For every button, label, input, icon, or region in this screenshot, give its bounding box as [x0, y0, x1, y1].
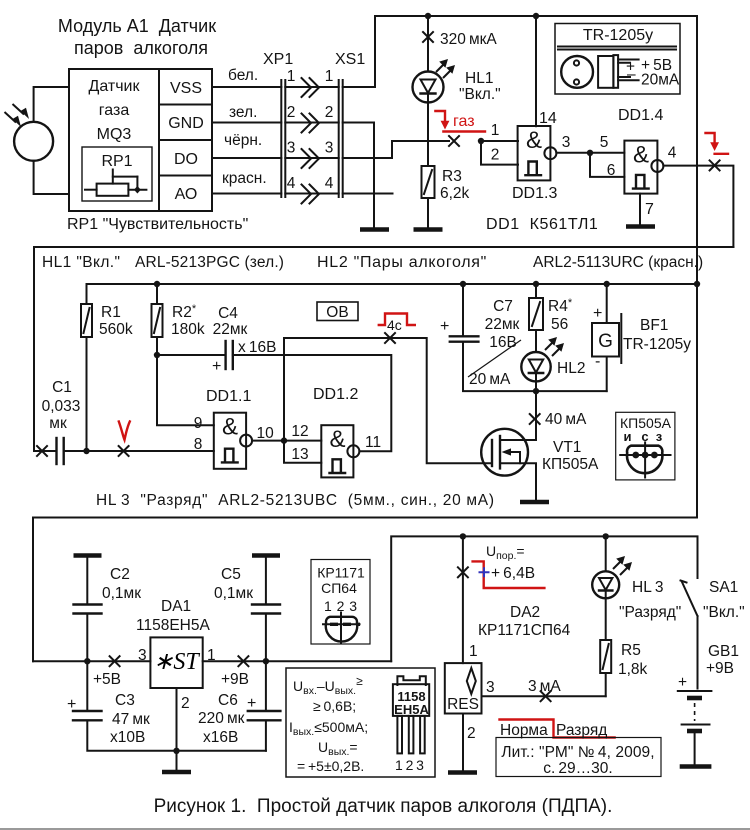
svg-text:DA1: DA1 [161, 598, 191, 615]
wire DA2 pin3 [482, 695, 606, 697]
svg-text:180k: 180k [171, 321, 205, 338]
svg-text:HL 3 "Разряд" ARL2-5213UBC: HL 3 "Разряд" ARL2-5213UBC (5мм., син., … [96, 492, 495, 509]
sounder BF1 [606, 284, 608, 323]
svg-text:∗ST: ∗ST [153, 649, 200, 675]
svg-text:40 мА: 40 мА [545, 411, 587, 428]
connector XP1 double bar [280, 80, 282, 197]
resistor R4 [535, 284, 537, 298]
svg-text:ЕН5А: ЕН5А [394, 702, 429, 717]
node DA2 pin1 rail junction [460, 533, 466, 539]
current marker gamma [119, 446, 129, 456]
LED HL3 [605, 536, 607, 571]
current marker +9V [238, 656, 248, 666]
svg-text:+: + [593, 305, 602, 322]
svg-text:R5: R5 [621, 642, 641, 659]
pin3 chevrons [302, 149, 320, 168]
node C2/C3 junction [84, 658, 90, 664]
node one-shot output junction [281, 437, 287, 443]
gate DD1.1 [214, 413, 246, 469]
capacitor C4 [157, 354, 225, 356]
svg-text:"Разряд": "Разряд" [619, 604, 681, 621]
current marker Upor [458, 567, 468, 577]
svg-text:газ: газ [453, 113, 475, 130]
svg-text:С2: С2 [110, 566, 130, 583]
svg-text:20 мА: 20 мА [469, 371, 511, 388]
bottom grey edge line [0, 828, 750, 830]
wire R5 to pin3 [605, 673, 607, 696]
svg-text:мк: мк [49, 415, 67, 432]
module A1 box [69, 69, 212, 211]
red threshold step [473, 561, 545, 588]
svg-text:HL1: HL1 [465, 70, 493, 87]
svg-text:220 мк: 220 мк [198, 710, 245, 727]
svg-text:и: и [624, 429, 632, 444]
svg-text:ОВ: ОВ [326, 304, 348, 321]
svg-text:Рисунок 1. Простой датчик пар: Рисунок 1. Простой датчик паров алкоголя… [154, 796, 613, 817]
gate DD1.4 [624, 141, 657, 194]
svg-text:х 16В: х 16В [238, 339, 276, 356]
current marker +5V [110, 656, 120, 666]
svg-text:3: 3 [486, 679, 495, 696]
svg-text:+: + [440, 318, 449, 335]
svg-text:R3: R3 [442, 168, 462, 185]
svg-text:х10В: х10В [110, 729, 145, 746]
svg-text:DD1 К561ТЛ1: DD1 К561ТЛ1 [486, 216, 598, 233]
svg-text:10: 10 [257, 425, 275, 442]
wire DA2 pin2 ground [462, 714, 464, 771]
svg-text:КР1171: КР1171 [317, 565, 365, 581]
pin 7 ground [639, 194, 641, 225]
svg-text:HL 3: HL 3 [632, 579, 664, 596]
svg-text:-: - [595, 353, 600, 370]
current marker pin4 [710, 160, 720, 170]
wire DD1.4 output pin4 [663, 166, 733, 247]
svg-text:2: 2 [325, 104, 334, 121]
svg-text:320 мкА: 320 мкА [440, 31, 497, 48]
svg-text:+5В: +5В [93, 671, 121, 688]
info box TR-1205y [555, 24, 680, 95]
svg-text:6,2k: 6,2k [440, 185, 470, 202]
svg-text:56: 56 [551, 316, 568, 333]
info box DA1 formulas + package [286, 668, 435, 777]
svg-text:0,1мк: 0,1мк [214, 585, 253, 602]
wire C1 input [34, 450, 56, 452]
current marker 320uA [423, 32, 433, 42]
wire DD1.4 output loop (top edge + left edge of middle section) [34, 247, 733, 451]
transistor VT1 KP505A [535, 391, 537, 440]
info box literature [496, 738, 661, 777]
node C7 top [460, 281, 466, 287]
capacitor C2 ground [74, 553, 102, 558]
svg-text:&: & [526, 127, 542, 154]
svg-text:TR-1205у: TR-1205у [583, 27, 653, 44]
svg-text:3: 3 [562, 134, 571, 151]
svg-text:1: 1 [325, 68, 334, 85]
svg-text:7: 7 [645, 201, 654, 218]
svg-text:бел.: бел. [228, 67, 258, 84]
connector XS1 double bar [338, 80, 340, 197]
pin2 chevrons [302, 114, 320, 133]
svg-text:С6: С6 [218, 692, 238, 709]
svg-text:1: 1 [207, 647, 216, 664]
svg-text:VSS: VSS [170, 80, 202, 97]
SECTION-MIDDLE [33, 16, 733, 661]
svg-text:+: + [67, 696, 76, 713]
svg-text:С1: С1 [52, 379, 72, 396]
node R1 bottom junction [83, 448, 89, 454]
svg-text:красн.: красн. [222, 170, 267, 187]
wire VSS (pin1) [212, 16, 697, 87]
pin1 chevrons [302, 78, 320, 97]
svg-text:1: 1 [469, 643, 478, 660]
svg-text:9: 9 [194, 415, 203, 432]
info box KR1171 SP64 pinout [311, 560, 370, 645]
svg-text:Лит.: "РМ" № 4, 2009,: Лит.: "РМ" № 4, 2009, [501, 744, 654, 761]
HL1 wire down through DO crossing to R3 [427, 103, 429, 167]
resistor R1 [86, 284, 88, 304]
red step-down symbol at pin4 [706, 133, 715, 144]
svg-text:газа: газа [99, 102, 130, 119]
wire C4 right to DD1.2 output loop [233, 355, 391, 451]
red gamma spike symbol [119, 422, 130, 440]
svg-text:MQ3: MQ3 [97, 126, 132, 143]
svg-text:4: 4 [668, 145, 677, 162]
wire pin5 [590, 152, 624, 154]
svg-text:2: 2 [467, 725, 476, 742]
svg-text:RES: RES [447, 696, 479, 713]
node +5V top rail dot at pin14 [533, 13, 539, 19]
capacitor C2 [86, 558, 88, 604]
package 1158EH5A drawing [397, 676, 425, 685]
svg-text:1: 1 [491, 122, 500, 139]
svg-text:+ 6,4В: + 6,4В [491, 565, 535, 582]
svg-text:VT1: VT1 [553, 439, 581, 456]
wire pin6 [590, 153, 624, 177]
resistor R5 [605, 598, 607, 640]
node C5/C6 junction [263, 658, 269, 664]
+9V rail from battery [391, 536, 697, 661]
svg-text:"Вкл.": "Вкл." [703, 604, 745, 621]
node +5V top rail dot at HL1 [425, 13, 431, 19]
svg-text:G: G [598, 331, 613, 352]
svg-text:&: & [222, 414, 238, 441]
svg-text:Модуль А1 Датчик: Модуль А1 Датчик [58, 16, 216, 36]
R3 ground [427, 198, 429, 228]
red 4s pulse symbol [379, 314, 415, 326]
svg-text:3: 3 [287, 140, 296, 157]
resistor R2 [156, 284, 158, 304]
current marker 40mA [530, 414, 540, 424]
switch SA1 [681, 581, 687, 583]
wire DD1.1 out to DD1.2 in [252, 440, 321, 442]
svg-text:6: 6 [607, 162, 616, 179]
svg-text:С3: С3 [115, 692, 135, 709]
gas sensor inlet circle [14, 122, 53, 161]
node R2 bottom junction [154, 352, 160, 358]
HL1 emission arrows [436, 63, 452, 78]
battery ground [680, 764, 712, 769]
svg-text:22мк: 22мк [213, 321, 248, 338]
wire DO (pin3) [212, 141, 449, 158]
svg-text:КП505А: КП505А [542, 456, 599, 473]
red norma/razryad step [500, 720, 615, 738]
wire 4s output up and over [284, 338, 491, 463]
svg-text:4: 4 [287, 175, 296, 192]
wire DA1 pin1 (+9V in) [203, 660, 392, 662]
wire GND (pin2) [212, 123, 374, 229]
svg-text:GND: GND [168, 115, 204, 132]
svg-text:+: + [247, 695, 256, 712]
LED HL1 [427, 16, 429, 72]
svg-text:DD1.4: DD1.4 [618, 107, 663, 124]
svg-text:R1: R1 [101, 304, 121, 321]
wire DA1 pin3 (+5V out) [33, 660, 150, 662]
svg-text:47 мк: 47 мк [112, 711, 150, 728]
svg-text:SA1: SA1 [709, 579, 738, 596]
wire DA1 pin2 to ground [176, 688, 178, 751]
svg-text:1,8k: 1,8k [618, 661, 648, 678]
node pins 5-6 junction [587, 150, 593, 156]
svg-text:АО: АО [175, 186, 198, 203]
svg-text:1158ЕН5А: 1158ЕН5А [136, 617, 210, 634]
+5V net: right edge down, bottom edge, left drop to DA1 [33, 16, 697, 661]
svg-text:+: + [678, 674, 687, 691]
info box KP505A pinout [616, 412, 675, 480]
svg-text:С7: С7 [493, 298, 513, 315]
svg-text:≥ 0,6В;: ≥ 0,6В; [313, 698, 356, 714]
svg-text:Норма: Норма [500, 722, 548, 739]
svg-text:С4: С4 [218, 305, 238, 322]
capacitor C1 [55, 438, 57, 464]
svg-text:560k: 560k [99, 321, 133, 338]
svg-text:GB1: GB1 [708, 643, 739, 660]
regulator DA1 box [150, 637, 202, 688]
svg-text:1: 1 [287, 68, 296, 85]
node HL2 bottom [533, 388, 539, 394]
HL3 emission arrows [613, 560, 629, 575]
wire R2 to pin9 [157, 355, 214, 425]
wire C1 to pin8 [64, 450, 214, 452]
svg-text:HL2 "Пары алкоголя": HL2 "Пары алкоголя" [317, 254, 487, 271]
svg-text:DD1.2: DD1.2 [313, 386, 358, 403]
capacitor C3 [86, 661, 88, 710]
wire sensor to AO row [34, 161, 69, 194]
svg-text:СП64: СП64 [321, 580, 357, 596]
pin 14 wire [535, 16, 537, 126]
svg-text:зел.: зел. [229, 104, 257, 121]
svg-text:"Вкл.": "Вкл." [459, 86, 501, 103]
svg-text:RP1: RP1 [101, 153, 132, 170]
svg-text:DD1.3: DD1.3 [512, 185, 557, 202]
blue plus [479, 567, 490, 577]
svg-text:+: + [212, 358, 221, 375]
svg-text:Разряд: Разряд [556, 722, 607, 739]
svg-text:5: 5 [600, 134, 609, 151]
svg-text:DO: DO [174, 151, 198, 168]
svg-text:14: 14 [539, 110, 557, 127]
svg-text:RP1 "Чувствительность": RP1 "Чувствительность" [67, 216, 248, 233]
svg-text:–: – [627, 66, 636, 83]
wire AO (pin4) [212, 193, 393, 195]
svg-text:&: & [633, 142, 649, 169]
svg-text:2: 2 [287, 104, 296, 121]
svg-text:HL1 "Вкл.": HL1 "Вкл." [42, 254, 120, 271]
capacitor C5 [265, 558, 267, 604]
node pin2 ground junction [173, 748, 179, 754]
svg-text:XS1: XS1 [335, 51, 365, 68]
current marker C1 left [37, 446, 47, 456]
red gas step symbol [435, 111, 445, 124]
node HL3 rail junction [603, 533, 609, 539]
stabilizer DA2 [445, 663, 482, 713]
svg-text:HL2: HL2 [557, 360, 585, 377]
svg-text:4с: 4с [387, 317, 402, 333]
svg-text:DD1.1: DD1.1 [206, 388, 251, 405]
wire sensor to VSS row [34, 87, 69, 122]
leader line 20mA [468, 340, 521, 377]
+5V horizontal rail of middle section [87, 283, 698, 285]
svg-text:ARL2-5113URC (красн.): ARL2-5113URC (красн.) [533, 254, 703, 271]
svg-text:0,1мк: 0,1мк [102, 585, 141, 602]
svg-text:ARL-5213PGC (зел.): ARL-5213PGC (зел.) [135, 254, 284, 271]
SECTION-BOTTOM [33, 533, 745, 777]
svg-text:4: 4 [325, 175, 334, 192]
wire pin2 of DD1.3 [481, 141, 518, 165]
node DO input junction [478, 138, 484, 144]
current marker on DO wire [449, 136, 459, 146]
VT1 source ground [520, 500, 549, 505]
svg-text:&: & [329, 426, 345, 453]
svg-text:3 мА: 3 мА [528, 678, 561, 695]
svg-text:8: 8 [194, 436, 203, 453]
svg-text:= +5±0,2В.: = +5±0,2В. [297, 758, 364, 774]
pin4 chevrons [302, 185, 320, 204]
svg-text:3: 3 [325, 140, 334, 157]
svg-text:3: 3 [138, 647, 147, 664]
node R2 top [154, 281, 160, 287]
potentiometer RP1 (inside module) [82, 147, 152, 201]
sensor input arrows [5, 104, 25, 123]
svg-text:чёрн.: чёрн. [224, 132, 262, 149]
svg-text:22мк: 22мк [485, 316, 520, 333]
svg-text:0,033: 0,033 [42, 398, 81, 415]
svg-text:+9В: +9В [221, 671, 249, 688]
DA1 ground symbol [176, 751, 178, 770]
svg-text:+9В: +9В [706, 660, 734, 677]
svg-text:з: з [656, 429, 663, 444]
svg-text:2: 2 [491, 147, 500, 164]
svg-text:16В: 16В [489, 334, 517, 351]
svg-text:12: 12 [291, 423, 308, 440]
svg-text:С5: С5 [221, 566, 241, 583]
svg-text:КР1171СП64: КР1171СП64 [478, 622, 571, 639]
svg-text:ХР1: ХР1 [263, 51, 293, 68]
svg-text:паров алкоголя: паров алкоголя [74, 38, 208, 58]
node rail-right junction [694, 281, 700, 287]
current marker 4s [385, 333, 395, 343]
svg-text:DA2: DA2 [510, 604, 540, 621]
wire pin13 branch [284, 441, 321, 463]
svg-text:2: 2 [181, 695, 190, 712]
node BF1 top [604, 281, 610, 287]
svg-text:Датчик: Датчик [89, 78, 141, 95]
node R4 top [533, 281, 539, 287]
svg-text:с. 29…30.: с. 29…30. [543, 760, 612, 777]
gate DD1.3 [518, 126, 551, 180]
resistor R3 [422, 166, 435, 198]
wire DA2 pin1 [462, 536, 464, 663]
LED HL2 [535, 330, 537, 352]
current marker 3mA [541, 691, 551, 701]
svg-text:1 2 3: 1 2 3 [395, 757, 424, 773]
svg-text:х16В: х16В [203, 729, 238, 746]
svg-text:13: 13 [291, 446, 308, 463]
gate DD1.2 [321, 425, 353, 477]
capacitor C6 [265, 661, 267, 710]
GND ground symbol [360, 227, 389, 232]
SECTION-TOP [5, 13, 734, 247]
svg-text:BF1: BF1 [640, 317, 668, 334]
capacitor C7 [462, 284, 464, 335]
svg-text:TR-1205у: TR-1205у [623, 336, 691, 353]
svg-text:20мА: 20мА [641, 72, 680, 89]
wire DD1.3 out to DD1.4 [556, 152, 590, 154]
svg-text:11: 11 [365, 434, 381, 451]
capacitor C5 ground [252, 553, 280, 558]
wire pin1 of DD1.3 [481, 140, 518, 142]
info box OB (one-shot) [317, 302, 358, 321]
HL2 emission arrows [545, 341, 561, 356]
